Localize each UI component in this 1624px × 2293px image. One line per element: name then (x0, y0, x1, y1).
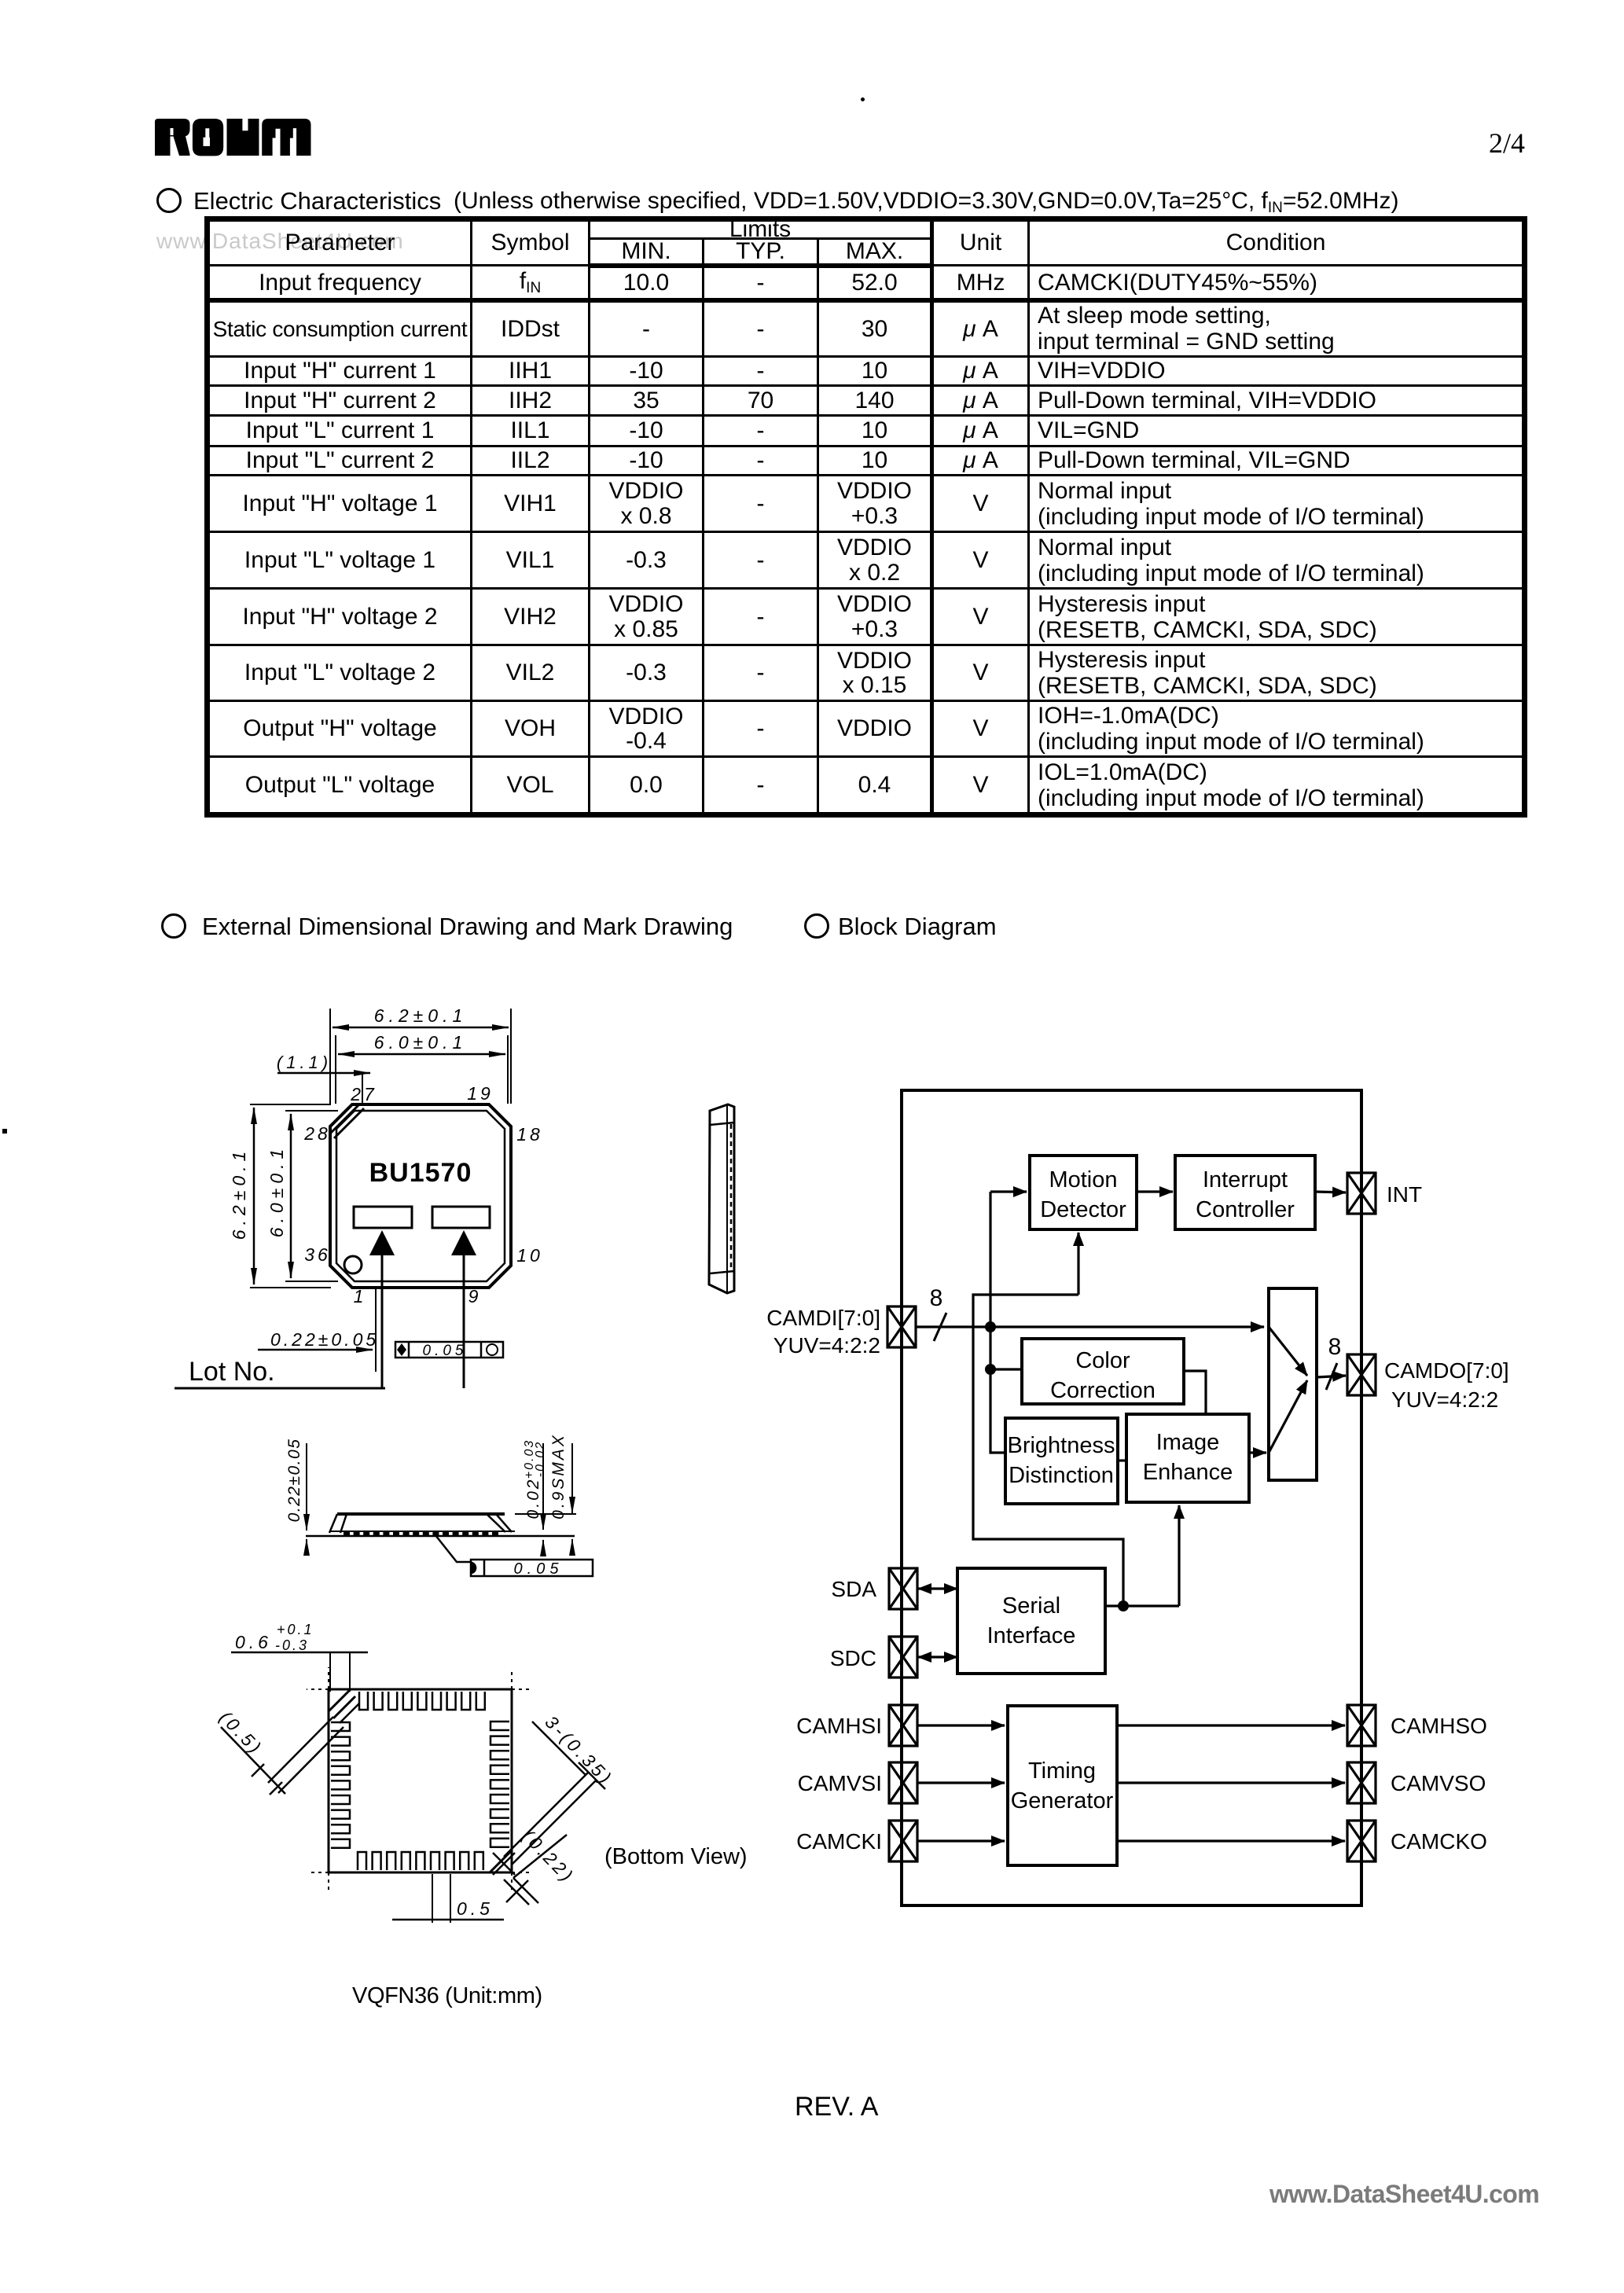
svg-text:Timing: Timing (1028, 1758, 1096, 1784)
svg-text:CAMDO[7:0]: CAMDO[7:0] (1384, 1358, 1509, 1383)
svg-text:0.22±0.05: 0.22±0.05 (270, 1329, 379, 1350)
svg-text:Detector: Detector (1040, 1197, 1126, 1222)
svg-text:Enhance: Enhance (1143, 1460, 1233, 1485)
svg-text:6.2±0.1: 6.2±0.1 (374, 1005, 468, 1026)
svg-text:CAMDI[7:0]: CAMDI[7:0] (766, 1306, 880, 1330)
svg-text:(0.5): (0.5) (215, 1707, 266, 1758)
svg-text:0.9SMAX: 0.9SMAX (549, 1433, 568, 1519)
svg-text:27: 27 (350, 1084, 377, 1104)
svg-text:Correction: Correction (1050, 1378, 1156, 1403)
svg-text:CAMCKI: CAMCKI (796, 1829, 882, 1854)
svg-text:0.05: 0.05 (423, 1343, 468, 1359)
svg-text:YUV=4:2:2: YUV=4:2:2 (773, 1333, 880, 1358)
svg-text:CAMVSO: CAMVSO (1391, 1771, 1486, 1795)
svg-text:18: 18 (516, 1124, 543, 1145)
svg-text:Controller: Controller (1196, 1197, 1295, 1222)
svg-text:8: 8 (1328, 1334, 1342, 1360)
svg-text:CAMHSO: CAMHSO (1391, 1714, 1487, 1738)
svg-text:6.0±0.1: 6.0±0.1 (374, 1032, 468, 1053)
svg-text:INT: INT (1387, 1182, 1422, 1207)
svg-text:Lot No.: Lot No. (189, 1357, 275, 1387)
svg-text:YUV=4:2:2: YUV=4:2:2 (1391, 1387, 1498, 1412)
svg-text:Color: Color (1075, 1348, 1130, 1373)
svg-text:Serial: Serial (1002, 1593, 1060, 1619)
svg-text:-0.02: -0.02 (534, 1441, 547, 1477)
svg-text:Interface: Interface (987, 1623, 1076, 1648)
svg-text:Motion: Motion (1049, 1167, 1117, 1192)
svg-text:19: 19 (467, 1083, 494, 1104)
svg-text:-0.3: -0.3 (275, 1637, 309, 1653)
svg-text:0.5: 0.5 (457, 1898, 494, 1919)
svg-text:0.22±0.05: 0.22±0.05 (285, 1439, 303, 1523)
svg-text:CAMCKO: CAMCKO (1391, 1829, 1487, 1854)
svg-text:+0.1: +0.1 (277, 1622, 314, 1637)
svg-text:6.2±0.1: 6.2±0.1 (229, 1147, 249, 1240)
svg-text:BU1570: BU1570 (369, 1158, 472, 1188)
svg-text:36: 36 (304, 1244, 331, 1265)
svg-text:(0.22): (0.22) (518, 1825, 579, 1887)
svg-text:SDA: SDA (831, 1577, 876, 1601)
svg-text:1: 1 (354, 1286, 367, 1306)
svg-text:Brightness: Brightness (1007, 1433, 1115, 1458)
svg-text:0.05: 0.05 (514, 1560, 564, 1578)
svg-text:28: 28 (303, 1123, 331, 1144)
svg-text:10: 10 (516, 1245, 543, 1266)
svg-text:Generator: Generator (1011, 1788, 1114, 1813)
svg-text:Interrupt: Interrupt (1203, 1167, 1288, 1192)
svg-text:8: 8 (930, 1285, 943, 1311)
svg-text:Distinction: Distinction (1009, 1463, 1114, 1488)
svg-text:3-(0.35): 3-(0.35) (541, 1711, 617, 1789)
svg-text:CAMHSI: CAMHSI (796, 1714, 882, 1738)
svg-text:6.0±0.1: 6.0±0.1 (266, 1145, 287, 1238)
svg-text:SDC: SDC (830, 1646, 876, 1670)
svg-text:(1.1): (1.1) (277, 1053, 332, 1072)
svg-text:0.6: 0.6 (235, 1632, 272, 1652)
svg-text:0.02: 0.02 (524, 1478, 542, 1519)
svg-text:CAMVSI: CAMVSI (798, 1771, 882, 1795)
svg-text:Image: Image (1156, 1430, 1220, 1455)
svg-text:9: 9 (468, 1286, 482, 1306)
